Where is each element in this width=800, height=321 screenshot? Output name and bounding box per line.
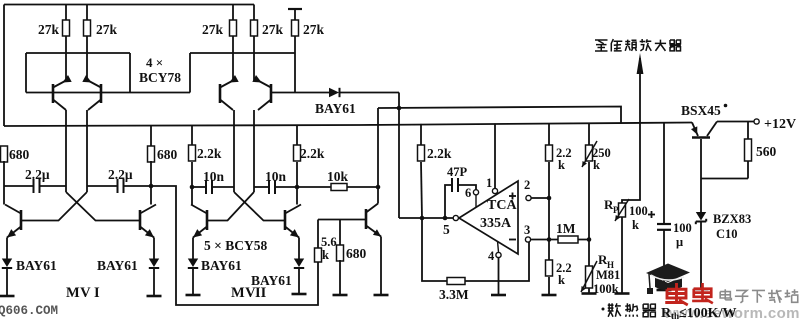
svg-text:I: I	[94, 285, 100, 301]
svg-text:5.6: 5.6	[321, 235, 337, 249]
svg-text:5: 5	[443, 222, 450, 237]
svg-text:4 ×: 4 ×	[146, 55, 163, 70]
svg-text:2.2μ: 2.2μ	[108, 167, 133, 182]
svg-text:C10: C10	[716, 227, 738, 241]
svg-text:th: th	[671, 311, 679, 321]
svg-text:6: 6	[465, 186, 471, 200]
svg-text:k: k	[593, 158, 600, 172]
svg-text:BZX83: BZX83	[713, 212, 751, 226]
svg-text:27k: 27k	[262, 22, 284, 37]
svg-text:BAY61: BAY61	[16, 258, 57, 273]
svg-text:Q606.COM: Q606.COM	[0, 304, 58, 318]
svg-text:27k: 27k	[202, 22, 224, 37]
svg-text:k: k	[558, 273, 565, 287]
svg-text:BAY61: BAY61	[201, 258, 242, 273]
svg-text:5 × BCY58: 5 × BCY58	[204, 238, 267, 253]
svg-text:BAY61: BAY61	[315, 101, 356, 116]
svg-text:1: 1	[486, 176, 492, 190]
svg-text:MV: MV	[231, 285, 256, 301]
svg-text:TCA: TCA	[487, 198, 517, 213]
svg-text:MV: MV	[66, 285, 91, 301]
svg-text:P: P	[613, 205, 619, 215]
svg-text:II: II	[255, 285, 267, 301]
svg-text:M81: M81	[596, 268, 620, 282]
svg-text:3.3M: 3.3M	[439, 287, 469, 302]
svg-text:1M: 1M	[556, 221, 576, 236]
svg-text:27k: 27k	[303, 22, 325, 37]
svg-text:+12V: +12V	[764, 117, 796, 132]
svg-text:47P: 47P	[447, 165, 468, 179]
svg-text:k: k	[322, 248, 329, 262]
svg-text:10k: 10k	[327, 169, 349, 184]
svg-text:680: 680	[346, 246, 367, 261]
svg-text:10n: 10n	[203, 169, 225, 184]
svg-text:2.2k: 2.2k	[427, 146, 452, 161]
svg-text:10n: 10n	[265, 169, 287, 184]
svg-text:27k: 27k	[38, 22, 60, 37]
svg-text:2: 2	[524, 178, 530, 192]
svg-text:3: 3	[524, 223, 530, 237]
svg-text:≤100K/W: ≤100K/W	[679, 306, 736, 321]
svg-text:680: 680	[9, 147, 30, 162]
svg-text:k: k	[558, 158, 565, 172]
svg-text:2.2k: 2.2k	[300, 146, 325, 161]
svg-text:100: 100	[673, 221, 692, 235]
svg-text:2.2μ: 2.2μ	[25, 167, 50, 182]
svg-text:k: k	[632, 218, 639, 232]
svg-text:BSX45: BSX45	[681, 103, 721, 118]
svg-text:680: 680	[157, 147, 178, 162]
svg-text:27k: 27k	[96, 22, 118, 37]
svg-text:BAY61: BAY61	[97, 258, 138, 273]
svg-text:560: 560	[756, 144, 777, 159]
svg-text:μ: μ	[676, 235, 683, 249]
svg-text:100: 100	[629, 204, 648, 218]
svg-text:4: 4	[488, 249, 495, 263]
svg-text:335A: 335A	[480, 216, 512, 231]
svg-text:BCY78: BCY78	[139, 70, 181, 85]
svg-text:2.2k: 2.2k	[197, 146, 222, 161]
